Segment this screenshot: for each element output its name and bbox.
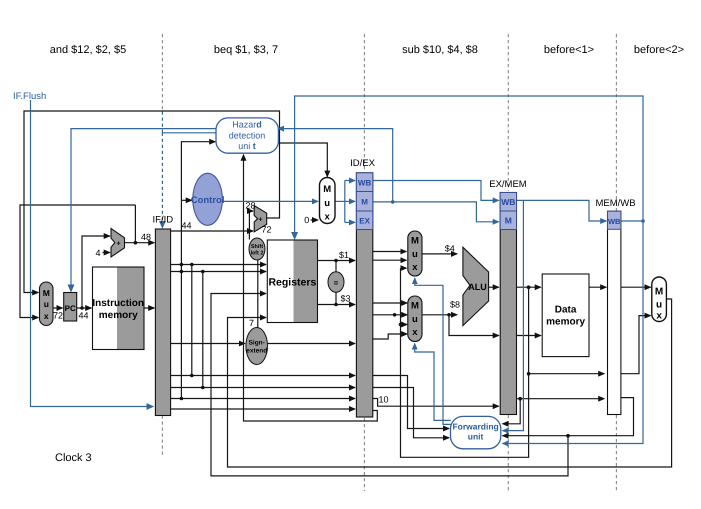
svg-text:72: 72 <box>261 225 271 235</box>
wire IF adder out (48) to IF/ID <box>125 242 155 244</box>
svg-text:4: 4 <box>95 248 100 258</box>
wire EX/MEM rd down to forwarding unit <box>503 399 521 424</box>
wire Instruction memory out to IF/ID <box>144 307 154 309</box>
ID branch adder <box>254 206 267 232</box>
wire PC+4 48 feedback (IF adder out up-over to PC mux bottom input) <box>20 205 135 318</box>
svg-text:sub $10, $4, $8: sub $10, $4, $8 <box>402 44 478 56</box>
wire ForwardA select from forwarding unit to mux A <box>415 278 451 424</box>
svg-text:IF/ID: IF/ID <box>153 215 174 226</box>
black signal wires <box>20 111 672 476</box>
wire sign-extend out to ID/EX <box>268 343 355 345</box>
wire EX/MEM.WB to MEM/WB.WB <box>517 200 607 221</box>
wire MEM/WB rd back to Registers write register <box>211 294 568 476</box>
ALU <box>463 247 489 325</box>
svg-text:MEM/WB: MEM/WB <box>595 198 635 209</box>
ALU mux A <box>408 231 422 276</box>
svg-text:left 2: left 2 <box>251 251 264 257</box>
wire read data 1 tap to equality comparator <box>335 261 337 273</box>
wire Registers read data 1 ($1) to ID/EX <box>318 260 355 262</box>
wire ID/EX read data 1 to ALU mux A input 1 <box>373 251 407 253</box>
svg-text:0: 0 <box>304 215 309 225</box>
EX/MEM pipeline register <box>500 193 516 415</box>
wire instruction bus riser to hazard unit and Control <box>181 142 215 399</box>
svg-text:ID/EX: ID/EX <box>350 158 375 169</box>
wire ID/EX.M to EX/MEM.M <box>373 202 499 222</box>
wire discard mux out fan to ID/EX WB M EX <box>335 200 345 202</box>
svg-text:Sign-: Sign- <box>249 340 265 347</box>
svg-text:Instruction: Instruction <box>92 298 144 309</box>
svg-text:$8: $8 <box>450 300 460 310</box>
svg-text:PC: PC <box>65 304 76 313</box>
svg-text:Shift: Shift <box>251 244 263 250</box>
wire branch-target 72 feedback (ID adder out to PC mux top input) <box>24 111 280 293</box>
svg-text:M: M <box>411 301 419 312</box>
svg-text:M: M <box>505 216 512 226</box>
wire ID/EX rt to forwarding unit <box>373 388 449 438</box>
wire ALU mux A out ($4) to ALU <box>422 253 457 255</box>
instruction memory <box>93 267 145 350</box>
svg-text:+: + <box>258 217 262 224</box>
svg-text:x: x <box>412 262 418 273</box>
svg-text:EX: EX <box>359 217 370 226</box>
svg-text:memory: memory <box>546 317 585 328</box>
IF/ID pipeline register <box>155 229 170 416</box>
wire data memory read data to MEM/WB <box>589 286 606 288</box>
wire WB mux out back to Registers write data <box>228 299 672 467</box>
wire EX/MEM forward stub to mux B input 3 <box>401 324 408 326</box>
svg-text:M: M <box>655 287 663 298</box>
wire EX/MEM ALU result to data memory address <box>517 286 541 288</box>
svg-text:u: u <box>324 198 330 209</box>
svg-text:x: x <box>44 311 49 321</box>
IF adder (PC+4) <box>111 228 125 257</box>
svg-text:x: x <box>325 212 331 223</box>
wire EX/MEM store data to data memory write data <box>517 335 541 337</box>
svg-text:WB: WB <box>608 217 621 226</box>
stage separator dashed line 3 (sub/before1) <box>507 34 509 491</box>
wire hazard unit to discard mux select <box>276 143 327 177</box>
svg-text:M: M <box>43 288 50 298</box>
PC register <box>64 293 77 322</box>
WB mux <box>652 277 667 322</box>
wire MEM/WB rd step down <box>503 398 634 436</box>
shift left 2 <box>249 238 265 260</box>
svg-text:WB: WB <box>501 197 515 207</box>
wire ID/EX.WB to EX/MEM.WB <box>373 181 499 201</box>
svg-text:x: x <box>656 311 662 322</box>
svg-text:Registers: Registers <box>268 277 316 289</box>
svg-text:unit: unit <box>468 431 484 441</box>
wire mux M1 out to PC <box>53 307 62 309</box>
equality comparator <box>328 272 344 293</box>
wire MEM/WB ALU result to WB mux input 2 <box>621 316 651 374</box>
svg-text:x: x <box>412 327 418 338</box>
wire ID/EX read data 2 to ALU mux B input 1 <box>373 302 407 304</box>
stage separator dashed line 4 (before1/before2) <box>615 34 617 491</box>
svg-text:beq $1, $3, 7: beq $1, $3, 7 <box>214 44 278 56</box>
wire PC out up to IF adder input <box>82 236 110 308</box>
wire shift-left-2 out (28) up to ID branch adder upper input <box>249 211 253 240</box>
forwarding unit <box>451 416 501 448</box>
ID/EX pipeline register <box>356 173 372 417</box>
registers <box>267 240 317 323</box>
svg-text:Forwarding: Forwarding <box>452 421 498 431</box>
hazard detection unit <box>216 118 278 153</box>
svg-text:uni t: uni t <box>238 141 256 151</box>
wire ID/EX to ALU mux B input 2 (MEM/WB forward joins) <box>373 314 407 316</box>
Control unit <box>193 173 223 225</box>
svg-text:extend: extend <box>246 348 267 355</box>
wire IF/ID instruction to Registers read register 2 <box>171 271 266 273</box>
stage separator dashed line 2 (beq/sub) <box>363 34 365 491</box>
wire PC out to Instruction memory <box>77 307 92 309</box>
data memory <box>542 274 589 357</box>
svg-text:detection: detection <box>229 131 266 141</box>
wire ID/EX immediate to ALU mux B input 4 <box>373 334 407 339</box>
mux M1 (PC source mux) <box>40 282 54 326</box>
svg-text:M: M <box>323 184 331 195</box>
wire IF/ID instruction to Registers read register 1 <box>171 264 266 266</box>
stage separator dashed line 1 (and/beq) <box>161 34 163 457</box>
wire IF.Flush blue to IF/ID <box>31 100 153 407</box>
svg-text:M: M <box>361 197 368 206</box>
svg-text:u: u <box>656 300 662 311</box>
wire hazard unit IF/ID write (blue dashed on separator) <box>162 132 216 134</box>
wire ALU mux B out ($8) to ALU <box>422 314 457 316</box>
wire MEM/WB.WB RegWrite up over to Registers and down to forwarding unit <box>621 220 643 222</box>
svg-text:7: 7 <box>249 318 254 328</box>
svg-text:Hazard: Hazard <box>232 120 262 130</box>
wire ID/EX rs to forwarding unit <box>373 376 449 429</box>
wire constant 0 into discard mux <box>311 219 318 221</box>
junction dots blue <box>391 200 645 223</box>
svg-text:$3: $3 <box>340 294 350 304</box>
svg-text:before<1>: before<1> <box>544 44 594 56</box>
wire EX/MEM ALU result bypass below data memory to MEM/WB <box>529 373 605 375</box>
svg-text:48: 48 <box>141 232 151 242</box>
wire rt field riser down to ID/EX <box>202 272 204 388</box>
wire IF/ID PC+4 (44) to ID branch adder lower input <box>171 230 253 232</box>
svg-text:and $12, $2, $5: and $12, $2, $5 <box>50 44 126 56</box>
ALU mux B <box>408 296 422 342</box>
wire rs field riser down to ID/EX <box>191 265 193 376</box>
svg-text:WB: WB <box>358 178 372 187</box>
wire ID/EX.RegisterRt loop up to hazard detection unit <box>244 155 378 421</box>
wire IF/ID field 1 to ID/EX <box>171 375 355 377</box>
wire IF/ID field 3 to ID/EX <box>171 398 355 400</box>
svg-text:44: 44 <box>181 221 191 231</box>
svg-text:u: u <box>44 299 49 309</box>
svg-text:memory: memory <box>99 310 138 321</box>
svg-text:before<2>: before<2> <box>634 44 684 56</box>
wire IF/ID field 2 to ID/EX <box>171 387 355 389</box>
svg-text:EX/MEM: EX/MEM <box>489 179 527 190</box>
svg-text:+: + <box>117 240 121 247</box>
wire ID/EX to ALU mux A input 2 <box>373 259 407 261</box>
svg-text:44: 44 <box>78 311 88 321</box>
svg-text:$4: $4 <box>445 244 455 254</box>
wire ID/EX register rd (10) to EX/MEM <box>373 399 499 407</box>
svg-text:=: = <box>334 279 339 288</box>
svg-text:72: 72 <box>53 311 63 321</box>
svg-text:Control: Control <box>191 195 225 206</box>
svg-text:IF.Flush: IF.Flush <box>13 91 46 102</box>
wire sign-extend up to shift-left-2 (7) <box>257 261 259 328</box>
MEM/WB pipeline register <box>608 211 621 414</box>
svg-text:ALU: ALU <box>468 282 487 292</box>
wire EX/MEM.WB down to forwarding unit <box>503 200 524 430</box>
svg-text:$1: $1 <box>339 250 349 260</box>
wire ID/EX.MemRead to hazard unit <box>278 129 393 202</box>
wire IF/ID field 4 to ID/EX <box>171 408 355 410</box>
wire equality comparator to read data 2 <box>335 293 337 305</box>
wire EX/MEM ALU result forward loop to ALU muxes <box>401 268 529 457</box>
wire Registers read data 2 ($3) to ID/EX <box>318 304 355 306</box>
wire store data branch to EX/MEM <box>449 315 499 336</box>
svg-text:Clock 3: Clock 3 <box>55 452 92 464</box>
wire Control to discard mux <box>223 200 318 202</box>
wire constant 4 into IF adder <box>103 252 110 254</box>
svg-text:10: 10 <box>378 395 388 405</box>
svg-text:28: 28 <box>245 201 255 211</box>
blue control wires <box>31 96 644 444</box>
svg-text:M: M <box>411 236 419 247</box>
wire ForwardB select from forwarding unit to mux B <box>415 344 451 421</box>
wire IF/ID immediate to sign-extend <box>171 343 245 345</box>
svg-text:u: u <box>412 314 418 325</box>
svg-text:u: u <box>412 249 418 260</box>
discard mux (control zero mux) <box>320 178 336 224</box>
sign extend <box>246 328 268 365</box>
wire ALU result to EX/MEM <box>489 286 499 288</box>
wire hazard unit PCWrite to PC <box>71 129 217 291</box>
wire EX/MEM forward stub to mux A input 3 <box>401 267 407 269</box>
svg-text:Data: Data <box>555 305 577 316</box>
wire MEM/WB read data to WB mux <box>621 286 651 288</box>
wire EX/MEM rd to MEM/WB <box>517 398 605 400</box>
